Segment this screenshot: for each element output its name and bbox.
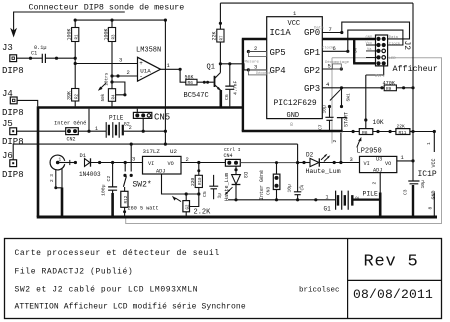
svg-text:Rev 5: Rev 5	[364, 253, 419, 272]
switch SW2	[124, 163, 126, 172]
svg-text:GP4: GP4	[270, 66, 286, 76]
svg-text:1: 1	[59, 158, 62, 163]
J2 left stubs	[366, 45, 379, 57]
svg-text:VO: VO	[385, 161, 391, 167]
capacitor C6 4.7nF	[229, 64, 231, 107]
svg-text:1: 1	[426, 142, 432, 145]
ground bus bottom (thick)	[37, 216, 437, 219]
wire J5 to CN2	[17, 130, 66, 132]
trimmer wiper tie loop	[112, 82, 125, 95]
connector J2	[376, 35, 388, 66]
svg-text:10µ: 10µ	[420, 180, 426, 189]
svg-text:R8: R8	[362, 130, 368, 136]
thick ground frame around PIC	[242, 39, 378, 131]
svg-text:R2: R2	[76, 93, 80, 99]
svg-text:260 5 watt: 260 5 watt	[128, 205, 159, 211]
svg-text:10µ: 10µ	[321, 105, 327, 114]
svg-text:IC1A: IC1A	[270, 28, 292, 38]
svg-text:Connecteur DIP8 sonde de mesur: Connecteur DIP8 sonde de mesure	[29, 3, 185, 13]
svg-text:ADJ: ADJ	[373, 167, 382, 173]
svg-text:R3: R3	[112, 34, 116, 40]
GP1 pin6 route to J2 Clock	[322, 30, 403, 51]
section box Afficheur (gray group frame)	[126, 58, 442, 224]
svg-text:2: 2	[372, 182, 378, 185]
svg-text:START: START	[344, 112, 350, 127]
svg-text:1N4003: 1N4003	[79, 171, 101, 178]
svg-text:DIP8: DIP8	[2, 170, 24, 180]
svg-text:VO: VO	[168, 161, 174, 167]
svg-text:CN4: CN4	[224, 153, 233, 159]
svg-text:SW2*: SW2*	[133, 181, 152, 190]
svg-text:Carte processeur et détecteur: Carte processeur et détecteur de seuil	[15, 249, 220, 258]
svg-text:R6: R6	[188, 80, 194, 86]
svg-text:ADJ: ADJ	[156, 168, 165, 174]
title block frame	[5, 239, 442, 319]
wire battery plus to CN5/sonde	[124, 130, 165, 132]
svg-text:100K: 100K	[67, 28, 73, 40]
svg-text:22K: 22K	[212, 31, 218, 40]
svg-text:J2: J2	[402, 41, 411, 51]
svg-text:317LZ: 317LZ	[143, 148, 161, 155]
svg-text:Data: Data	[389, 36, 399, 40]
svg-text:39K: 39K	[67, 91, 73, 100]
svg-text:3: 3	[254, 63, 257, 70]
ground bus top (thick)	[37, 106, 243, 108]
svg-text:8: 8	[428, 207, 434, 210]
wire J4 to bus	[17, 100, 38, 106]
sonde top rail	[75, 19, 165, 21]
svg-text:U2: U2	[170, 148, 177, 155]
GP4 pin3 wire and net tag	[248, 69, 266, 71]
power jack connector	[50, 155, 65, 170]
capacitor C7 10µ	[329, 107, 331, 131]
svg-text:J3: J3	[2, 43, 13, 53]
svg-text:Clock: Clock	[389, 42, 401, 47]
GND drop from bus to battery minus	[88, 109, 90, 132]
GP2 pin5 wire and net tag	[322, 68, 341, 70]
svg-text:+: +	[139, 60, 143, 67]
svg-text:Décomptage: Décomptage	[325, 60, 350, 65]
U3 VO wire	[397, 160, 413, 162]
VCC top rail	[220, 2, 413, 4]
ground thick vertical left	[37, 106, 40, 217]
svg-text:bricolsec: bricolsec	[299, 287, 340, 295]
connector CN5	[133, 112, 151, 118]
node pin3 junction	[74, 62, 77, 65]
svg-text:100K: 100K	[103, 28, 109, 40]
D3 emission arrows	[225, 187, 232, 194]
svg-text:Décompt: Décompt	[256, 71, 271, 76]
svg-text:VCC: VCC	[431, 158, 437, 167]
svg-text:Inter Géné: Inter Géné	[54, 121, 86, 127]
resistor R3 100K (right top)	[111, 20, 113, 89]
svg-text:R7: R7	[221, 35, 225, 41]
svg-text:C3: C3	[403, 189, 409, 195]
svg-text:3: 3	[119, 57, 122, 64]
svg-text:10K: 10K	[373, 119, 384, 126]
svg-text:File RADACTJ2 (Publié): File RADACTJ2 (Publié)	[15, 268, 134, 277]
svg-text:DIP8: DIP8	[2, 66, 24, 76]
wire J6 long	[13, 144, 297, 160]
resistor R1 100K (left top)	[74, 20, 76, 88]
push button SW1 START	[341, 88, 343, 107]
svg-text:VI: VI	[148, 161, 154, 167]
wire op-amp pin3	[75, 63, 137, 65]
svg-text:2 3: 2 3	[50, 174, 55, 182]
sonde vertical line	[164, 20, 166, 144]
callout arrow to J3	[14, 12, 125, 34]
svg-text:IC1P: IC1P	[418, 170, 437, 179]
svg-text:100µ: 100µ	[101, 184, 107, 196]
resistor R12 260 5 watt	[124, 187, 126, 191]
U2 VO wire to CN4	[181, 162, 225, 164]
svg-text:D3: D3	[242, 172, 248, 178]
LED D3	[235, 166, 237, 174]
svg-text:DIP8: DIP8	[2, 108, 24, 118]
trimmer G2 2.2K	[185, 194, 187, 201]
svg-text:CN5: CN5	[154, 113, 170, 123]
wire collector node to GP4	[220, 64, 248, 70]
svg-text:2: 2	[254, 45, 257, 52]
svg-text:Data: Data	[314, 27, 324, 31]
wire ground drop to D2 node	[340, 133, 342, 163]
svg-text:C1: C1	[31, 51, 37, 57]
IC1P power symbol	[410, 132, 434, 153]
wire CN2 to PILE	[78, 130, 106, 132]
svg-text:Haute_Lum: Haute_Lum	[224, 173, 230, 201]
svg-text:D2: D2	[306, 151, 314, 158]
svg-text:R10: R10	[199, 177, 203, 185]
svg-text:LM358N: LM358N	[136, 47, 161, 55]
wire output to R6	[180, 69, 186, 82]
capacitor C2 100µ	[112, 163, 114, 187]
svg-text:CN2: CN2	[67, 137, 76, 143]
svg-text:GP5: GP5	[270, 48, 286, 58]
svg-text:GP3: GP3	[304, 84, 320, 94]
svg-text:SW1: SW1	[346, 93, 352, 102]
svg-text:Vcc: Vcc	[366, 42, 373, 46]
CN5 pin2 to battery wire	[142, 118, 144, 131]
capacitor C4 10µ	[294, 192, 301, 195]
svg-text:R11: R11	[399, 131, 407, 136]
svg-text:Haute_Lum: Haute_Lum	[306, 168, 341, 175]
trimmer RV1 50k 10trs	[110, 74, 113, 77]
svg-text:CN3: CN3	[266, 186, 272, 195]
svg-text:GP2: GP2	[304, 66, 320, 76]
svg-text:R9: R9	[386, 87, 392, 92]
capacitor C3 10µ	[408, 181, 419, 184]
svg-text:8: 8	[290, 122, 293, 128]
svg-text:C2: C2	[106, 176, 112, 182]
svg-text:2: 2	[129, 125, 132, 131]
J6 line descender / D2 anode node	[297, 144, 299, 200]
battery plus thick link to ground vertical	[354, 199, 381, 201]
svg-text:BC547C: BC547C	[184, 92, 209, 100]
svg-text:R12: R12	[124, 195, 129, 203]
svg-text:ATTENTION Afficheur LCD modifi: ATTENTION Afficheur LCD modifié série Sy…	[15, 303, 246, 312]
svg-text:GND: GND	[287, 112, 300, 120]
svg-text:U3: U3	[376, 156, 382, 162]
J2 LED pin route down to R8	[366, 66, 384, 129]
svg-text:3: 3	[132, 156, 135, 163]
svg-text:GP1: GP1	[304, 48, 320, 58]
svg-text:VI: VI	[364, 161, 370, 167]
svg-text:R1: R1	[76, 34, 80, 40]
svg-text:5V: 5V	[353, 47, 359, 53]
svg-text:Inter Géné: Inter Géné	[259, 170, 265, 200]
svg-text:C6: C6	[224, 94, 230, 100]
wire J3 to C1 to node	[17, 57, 76, 59]
svg-text:PILE: PILE	[109, 114, 124, 121]
START wire with R8 and R11	[343, 131, 360, 133]
resistor R7 22K collector pull-up	[219, 3, 221, 73]
op-amp output wire pin1	[161, 68, 181, 70]
CN5 pin1 stub to bus	[136, 109, 138, 113]
VCC vertical line right	[412, 3, 414, 181]
Q1 emitter thick to ground	[220, 90, 223, 108]
svg-text:C7: C7	[318, 124, 324, 130]
svg-text:SW2 et J2 cablé pour LCD LM093: SW2 et J2 cablé pour LCD LM093XMLN	[15, 286, 199, 295]
U3 ADJ to ground	[379, 173, 381, 193]
jack ground struts	[56, 169, 62, 188]
U2 ADJ network	[162, 174, 199, 194]
svg-text:Q1: Q1	[207, 64, 215, 72]
wire CN4 to CN3 to D2 node	[240, 162, 297, 164]
svg-text:PIC12F629: PIC12F629	[274, 99, 317, 108]
svg-text:PILE: PILE	[363, 191, 379, 198]
GP5 pin2 wire and net tag	[248, 51, 266, 53]
svg-text:2.2K: 2.2K	[194, 209, 212, 217]
resistor R10 220	[198, 163, 200, 176]
resistor R2 39K (left bottom)	[72, 89, 79, 102]
svg-text:08/08/2011: 08/08/2011	[353, 287, 433, 302]
D2 emission arrows	[321, 155, 329, 162]
svg-text:G1: G1	[324, 206, 332, 213]
GP3 pin4 wire	[322, 87, 413, 89]
svg-text:50k: 50k	[101, 93, 106, 101]
svg-text:C5: C5	[202, 191, 208, 197]
svg-text:Clock: Clock	[322, 45, 334, 50]
svg-text:2: 2	[127, 69, 130, 76]
svg-text:VCC: VCC	[288, 20, 301, 28]
svg-text:1: 1	[95, 126, 98, 132]
svg-text:220: 220	[190, 177, 196, 186]
svg-text:Va: Va	[367, 48, 372, 52]
diode D1 1N4003	[74, 161, 77, 164]
svg-text:+: +	[299, 186, 302, 191]
LP2950 callout arrow	[357, 139, 360, 147]
IC1A PIC12F629	[267, 17, 323, 119]
svg-text:7: 7	[329, 26, 332, 33]
wire op-amp pin2	[112, 75, 138, 77]
svg-text:10trs: 10trs	[104, 72, 109, 86]
svg-text:Ctrl: Ctrl	[375, 74, 385, 79]
svg-text:G2: G2	[187, 204, 191, 210]
svg-text:D1: D1	[80, 153, 86, 159]
svg-text:U1A: U1A	[140, 68, 151, 75]
svg-text:2: 2	[332, 140, 338, 143]
svg-text:LED: LED	[389, 57, 397, 61]
LED return rail	[228, 199, 336, 201]
svg-text:3: 3	[350, 156, 353, 163]
svg-text:LP2950: LP2950	[357, 148, 382, 156]
svg-text:4.7nF: 4.7nF	[233, 80, 239, 95]
GP0 pin7 route to J2 Data	[322, 22, 409, 39]
svg-text:10µ: 10µ	[287, 184, 293, 193]
svg-text:GND: GND	[366, 36, 374, 40]
svg-text:Afficheur: Afficheur	[393, 64, 438, 74]
svg-text:1: 1	[326, 195, 329, 201]
jack ground thick	[61, 188, 64, 218]
svg-text:1µ: 1µ	[216, 193, 222, 199]
capacitor C5 1µ	[213, 175, 215, 199]
